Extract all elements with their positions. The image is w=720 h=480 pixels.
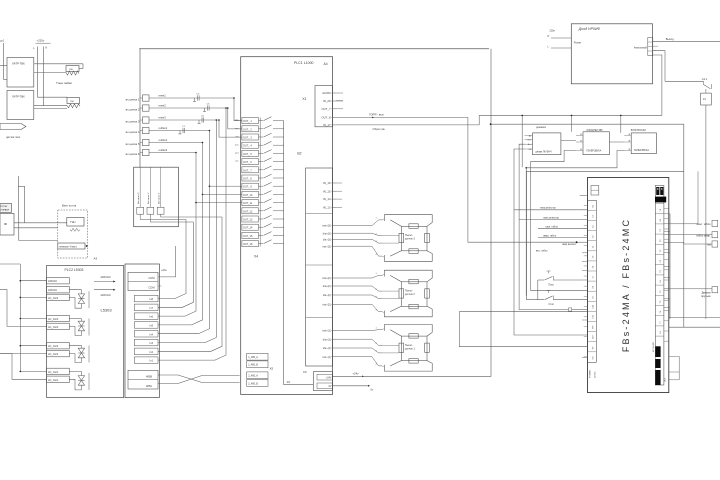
wire (705, 89, 707, 93)
switch contact row 14 (259, 226, 264, 228)
svg-text:220VAC: 220VAC (101, 275, 111, 279)
wire top bus (139, 48, 489, 50)
pin In7 (134, 304, 158, 311)
terminal strip right (655, 186, 664, 386)
svg-text:OUT_ 2: OUT_ 2 (243, 128, 252, 131)
svg-text:AC_Out4: AC_Out4 (48, 297, 59, 300)
dashed enclosure vent kotla (58, 210, 88, 258)
wire (88, 373, 90, 390)
svg-text:OUT_14: OUT_14 (243, 227, 253, 230)
wire (678, 356, 680, 379)
wire (19, 240, 58, 242)
wire +24v (161, 246, 176, 277)
wire (209, 185, 242, 187)
wire stub (582, 319, 588, 321)
switch contact row 4 (259, 144, 264, 146)
pin In4 (134, 331, 158, 338)
pin In8 (134, 295, 158, 302)
svg-text:вент. табло: вент. табло (697, 222, 712, 226)
wire +24V loop (333, 49, 492, 377)
connector 485 block (128, 370, 158, 389)
switch contact row 9 (259, 185, 264, 187)
pin AC_Out2 (47, 350, 70, 356)
wire loop (459, 312, 587, 347)
wire (14, 227, 58, 229)
pin OUT_9 (242, 183, 259, 189)
svg-text:AC_Out3: AC_Out3 (48, 326, 59, 329)
svg-text:горя. табло: горя. табло (545, 226, 558, 229)
switch contact row 12 (259, 210, 264, 212)
module U3 Diod NR0IF (571, 24, 652, 84)
svg-text:ОЖИДТЕЛ.ЗВУ: ОЖИДТЕЛ.ЗВУ (586, 130, 603, 132)
switch contact row 2 (259, 128, 264, 130)
svg-text:OUT_8: OUT_8 (321, 116, 330, 120)
svg-text:OUT_ 9: OUT_ 9 (243, 186, 252, 189)
pin 220VAC (47, 287, 70, 293)
svg-text:d/a–[3]: d/a–[3] (323, 238, 331, 241)
svg-text:inst–[1]: inst–[1] (322, 356, 330, 359)
svg-text:наг: наг (235, 161, 238, 163)
pin 2_485_A (247, 372, 268, 379)
pin AC_Out1 (47, 368, 70, 374)
transformer T1 box (7, 58, 34, 88)
relay coil K1 (701, 93, 712, 105)
svg-text:2_485_A: 2_485_A (248, 375, 258, 378)
pin OUT_5 (242, 150, 259, 156)
triac VS1 (78, 291, 84, 306)
pin AC_Out3 (47, 323, 70, 329)
wire (69, 290, 81, 292)
wire (664, 233, 712, 235)
connector X3 block (313, 372, 332, 391)
switch contact row 16 (259, 243, 264, 245)
junction (20, 318, 22, 320)
pin OUT_3 (242, 134, 259, 140)
wire sensor group 3 (337, 239, 382, 243)
wire avar (468, 117, 577, 242)
wire reset1 (149, 97, 234, 99)
svg-text:вх.цепка 3: вх.цепка 3 (126, 119, 140, 123)
svg-text:А3: А3 (94, 257, 98, 261)
wire stub (669, 371, 679, 373)
pin In1 (134, 357, 158, 364)
TEN heater box (67, 218, 84, 227)
svg-text:БЛОКПООЖИ: БЛОКПООЖИ (631, 130, 646, 132)
wire (158, 203, 196, 317)
wire (196, 202, 242, 204)
wire arrow (94, 289, 114, 291)
svg-text:AC_Out1: AC_Out1 (48, 379, 59, 382)
svg-text:POWER: POWER (590, 370, 592, 378)
pin OUT_13 (242, 216, 259, 222)
wire stub (336, 92, 343, 94)
wire (69, 345, 81, 347)
wire reset2 (149, 107, 228, 109)
svg-text:ЛАТР-ТВК: ЛАТР-ТВК (12, 62, 25, 66)
svg-text:d/a+[3]: d/a+[3] (323, 232, 331, 235)
wire branch (20, 296, 46, 298)
wire (620, 115, 622, 132)
power supply box (0, 214, 14, 236)
svg-text:дт1: дт1 (0, 39, 5, 43)
svg-text:вкл. табло: вкл. табло (536, 250, 548, 253)
wire (69, 379, 81, 390)
wire (538, 237, 588, 239)
wire B to C (609, 141, 624, 143)
pin AC_Out1 (47, 376, 70, 382)
svg-text:рез: рез (235, 153, 238, 155)
svg-text:reset3: reset3 (159, 116, 167, 120)
svg-text:+24v: +24v (161, 268, 167, 272)
wire (158, 217, 222, 351)
wire (158, 220, 186, 299)
svg-text:нагр.резистор: нагр.резистор (540, 207, 556, 210)
svg-text:вх.цепка 1: вх.цепка 1 (126, 97, 140, 101)
svg-text:температ 4 (вкл): температ 4 (вкл) (59, 246, 77, 248)
svg-text:inst+[3]: inst+[3] (322, 225, 330, 228)
svg-text:24V: 24V (593, 335, 595, 339)
wire vyhod (653, 41, 720, 43)
wire (537, 280, 539, 300)
twisted pair wire (158, 375, 240, 383)
tag pointer sensor (0, 124, 26, 130)
wire vertical feed (139, 49, 141, 167)
pin 0V (317, 383, 333, 389)
pin OUT_2 (242, 126, 259, 132)
wire branch (20, 318, 46, 320)
svg-text:OUT_ 7: OUT_ 7 (243, 169, 252, 172)
svg-text:табло авар.: табло авар. (696, 234, 711, 238)
indicator leds black (656, 187, 659, 195)
capacitor C4 (193, 95, 199, 101)
svg-text:220VAC: 220VAC (101, 293, 111, 297)
wire (2, 43, 4, 79)
wire sensor group 2 (337, 304, 382, 311)
pin strip edge (259, 118, 261, 247)
pin 220VAC (47, 278, 70, 284)
svg-text:reset1: reset1 (159, 94, 167, 98)
relay K3 contact box (137, 207, 144, 214)
wire stub (664, 213, 670, 215)
wire sensor group 1 (337, 339, 382, 345)
wire (551, 37, 571, 39)
wire (208, 131, 210, 187)
pin OUT_4 (242, 142, 259, 148)
junction (20, 297, 22, 299)
svg-text:ТЭН: ТЭН (70, 220, 75, 224)
svg-text:газ: газ (236, 136, 239, 138)
contact S4 (143, 127, 150, 133)
svg-text:вх.цепка 6: вх.цепка 6 (126, 152, 140, 156)
svg-text:PLC2 L5303: PLC2 L5303 (65, 268, 84, 272)
wire stub (582, 270, 588, 272)
wire (158, 194, 203, 325)
svg-text:авар выключ: авар выключ (562, 244, 577, 246)
pin In2 (134, 348, 158, 355)
wire 0V rail (283, 121, 285, 385)
svg-text:outfan2: outfan2 (159, 138, 168, 142)
contact S3 (143, 117, 150, 123)
svg-text:220в: 220в (550, 31, 556, 33)
wire (0, 353, 47, 355)
svg-text:-К1.1: -К1.1 (702, 78, 708, 81)
wire sensor group 1 (337, 348, 382, 353)
svg-text:inst–[2]: inst–[2] (322, 303, 330, 306)
svg-text:0V: 0V (329, 385, 332, 388)
wire stub (664, 230, 670, 232)
svg-text:COM: COM (148, 276, 154, 280)
wire (669, 317, 720, 319)
wire (521, 115, 523, 167)
connector B2 block (306, 168, 333, 366)
wire sensor group 1 (337, 357, 382, 366)
svg-text:+24v: +24v (352, 372, 359, 376)
switch contact row 8 (259, 177, 264, 179)
wire (69, 326, 81, 335)
wire IN_19 stub (336, 100, 343, 102)
svg-text:Вентилят 2: Вентилят 2 (148, 192, 150, 204)
junction (20, 280, 22, 282)
svg-text:OUT_16: OUT_16 (243, 243, 253, 246)
svg-text:AC_Out3: AC_Out3 (48, 318, 59, 321)
terminal strip left (591, 186, 599, 196)
wire (149, 167, 151, 207)
junction (20, 345, 22, 347)
svg-text:OUT_ 1: OUT_ 1 (243, 120, 252, 123)
svg-text:reset2: reset2 (159, 104, 167, 108)
wire (0, 64, 7, 66)
wire L1 (479, 114, 662, 116)
wire (161, 214, 222, 217)
wire (664, 242, 684, 244)
wire (69, 371, 81, 373)
svg-text:AC_Out1: AC_Out1 (48, 371, 59, 374)
pin stub (576, 141, 583, 143)
wire (88, 346, 90, 363)
svg-text:IN_16: IN_16 (323, 181, 331, 185)
wire IN_17 (336, 115, 479, 125)
wire outfan2 (149, 142, 203, 144)
svg-text:прутьев: прутьев (701, 295, 711, 298)
wire to TEN (14, 222, 67, 224)
svg-text:Анл: Анл (528, 143, 531, 146)
wire stub (664, 265, 670, 267)
junction (233, 97, 235, 99)
wire (538, 228, 588, 230)
pin OUT_7 (242, 167, 259, 173)
wire sensor group 2 (337, 295, 382, 299)
svg-text:In6: In6 (150, 316, 154, 319)
motor M1 box (712, 287, 718, 293)
svg-text:d/a–[1]: d/a–[1] (323, 347, 331, 350)
svg-text:485A: 485A (146, 384, 152, 388)
wire stub (580, 195, 588, 197)
switch contact row 15 (259, 234, 264, 236)
fuse F1 (569, 308, 572, 311)
pin AC_Out2 (47, 343, 70, 349)
wire (18, 219, 20, 241)
junction (20, 371, 22, 373)
wire stub (669, 379, 679, 381)
wire (203, 193, 242, 195)
junction (227, 107, 229, 109)
wire stub (336, 100, 343, 102)
svg-text:АСОМ: АСОМ (322, 91, 331, 95)
wire branch (20, 280, 46, 282)
svg-text:вх.цепка 2: вх.цепка 2 (126, 107, 140, 111)
wire 0v (333, 385, 369, 387)
module sound gen 2 (631, 133, 656, 154)
wire sensor group 2 (337, 275, 382, 278)
wire (669, 326, 720, 328)
lamp HL1 box (712, 220, 718, 226)
junction (225, 107, 227, 109)
wire T2 to R2 (34, 105, 67, 107)
wire (150, 214, 193, 222)
wire (24, 186, 26, 223)
pin OUT_6 (242, 159, 259, 165)
wire stub (664, 298, 670, 300)
svg-text:In5: In5 (150, 325, 154, 328)
svg-text:inst–[3]: inst–[3] (322, 245, 330, 248)
svg-text:вх.цепка 5: вх.цепка 5 (126, 142, 140, 146)
wire (160, 167, 162, 207)
wire bus to R1 right (38, 63, 84, 65)
svg-text:220VAC: 220VAC (48, 289, 57, 292)
svg-text:+24V: +24V (326, 377, 332, 380)
svg-text:Power: Power (574, 40, 581, 44)
switch Stop (527, 299, 545, 301)
connector out strip (648, 38, 653, 56)
svg-text:OUT_ 3: OUT_ 3 (243, 137, 252, 140)
wire stub (582, 357, 588, 359)
junction (209, 130, 211, 132)
svg-text:220VAC: 220VAC (48, 280, 57, 283)
pin stub (624, 141, 631, 143)
svg-text:OUT_ 6: OUT_ 6 (243, 161, 252, 164)
svg-text:AC_Out2: AC_Out2 (48, 345, 59, 348)
bus wire L (37, 47, 39, 98)
svg-text:OUT_13: OUT_13 (243, 219, 253, 222)
svg-text:outfan3: outfan3 (159, 148, 168, 152)
fan relay box A1 (134, 167, 179, 227)
junction arrow (372, 117, 374, 119)
transformer T2 box (7, 91, 34, 120)
wire stub (664, 252, 670, 254)
wire stub (653, 45, 658, 47)
wire (526, 171, 528, 299)
wire (697, 171, 699, 224)
wire (158, 186, 209, 334)
connector COM block (128, 272, 158, 290)
wire (69, 297, 81, 308)
wire sensor group 3 (337, 220, 382, 226)
pin 2_485_B (247, 380, 268, 387)
pin 1_485_A (247, 353, 268, 360)
switch contact row 5 (259, 152, 264, 154)
svg-text:ГЕНЕР.ЗВУКА: ГЕНЕР.ЗВУКА (586, 150, 601, 153)
wire (34, 108, 67, 110)
svg-text:N: N (548, 35, 550, 38)
svg-text:NC 24-48V: NC 24-48V (653, 341, 655, 352)
svg-text:датчик 1: датчик 1 (405, 348, 415, 351)
wire (669, 214, 671, 319)
switch contact row 3 (259, 136, 264, 138)
svg-text:N: N (45, 46, 47, 49)
svg-text:Вентилят 1: Вентилят 1 (158, 192, 160, 204)
pin In6 (134, 313, 158, 320)
pin In5 (134, 322, 158, 329)
svg-text:d/a+[2]: d/a+[2] (323, 285, 331, 288)
svg-text:2_485_B: 2_485_B (248, 382, 258, 385)
piezo sensor BQ1 (384, 325, 432, 372)
svg-text:ПУЛЬТ: ПУЛЬТ (1, 206, 9, 208)
wire sensor group 2 (337, 286, 382, 291)
arrow (86, 245, 88, 247)
svg-text:COM: COM (148, 286, 154, 290)
controller box (0, 204, 12, 213)
wire sensor group 3 (337, 246, 382, 256)
svg-text:Движок: Движок (702, 291, 712, 295)
junction (195, 152, 197, 154)
svg-text:А4: А4 (324, 62, 328, 66)
svg-text:OUT_12: OUT_12 (243, 210, 253, 213)
wire (88, 319, 90, 336)
pin OUT_15 (242, 232, 259, 238)
output black bar (655, 346, 660, 385)
wire (88, 291, 90, 308)
wire (526, 151, 624, 296)
svg-text:Диод НР0ИФ: Диод НР0ИФ (578, 27, 601, 31)
wire (158, 222, 193, 307)
pin stub (576, 135, 583, 137)
wire stub (582, 252, 588, 254)
wire stub (582, 260, 588, 262)
switch contact row 6 (259, 161, 264, 163)
temp sensor label box (58, 243, 85, 249)
svg-text:авар. табло: авар. табло (543, 234, 557, 237)
pin stub (576, 150, 583, 152)
svg-text:d/a–[2]: d/a–[2] (323, 294, 331, 297)
pin OUT_12 (242, 208, 259, 214)
svg-text:IN_29: IN_29 (323, 99, 331, 103)
wire to L1 (653, 55, 662, 115)
svg-text:Стоп: Стоп (549, 303, 555, 306)
junction (490, 123, 492, 125)
svg-text:X4: X4 (254, 255, 258, 259)
wire (531, 151, 588, 291)
wire stub (669, 355, 679, 357)
svg-text:X5: X5 (270, 367, 274, 371)
switch contact row 13 (259, 218, 264, 220)
pin OUT_10 (242, 191, 259, 197)
wire (551, 47, 571, 49)
svg-text:датчик 3: датчик 3 (405, 238, 415, 241)
wire (158, 108, 226, 360)
svg-text:FG: FG (593, 356, 595, 359)
wire A to B (561, 140, 576, 142)
junction (216, 119, 218, 121)
wire (69, 354, 81, 363)
piezo sensor BQ2 (384, 270, 432, 317)
switch K1.1 (703, 81, 705, 84)
module audio amp (533, 133, 561, 155)
svg-text:OUT_ 5: OUT_ 5 (243, 153, 252, 156)
junction (525, 167, 527, 169)
wire L2 (491, 124, 684, 171)
wire (69, 318, 81, 320)
wire routing frame (527, 171, 684, 327)
